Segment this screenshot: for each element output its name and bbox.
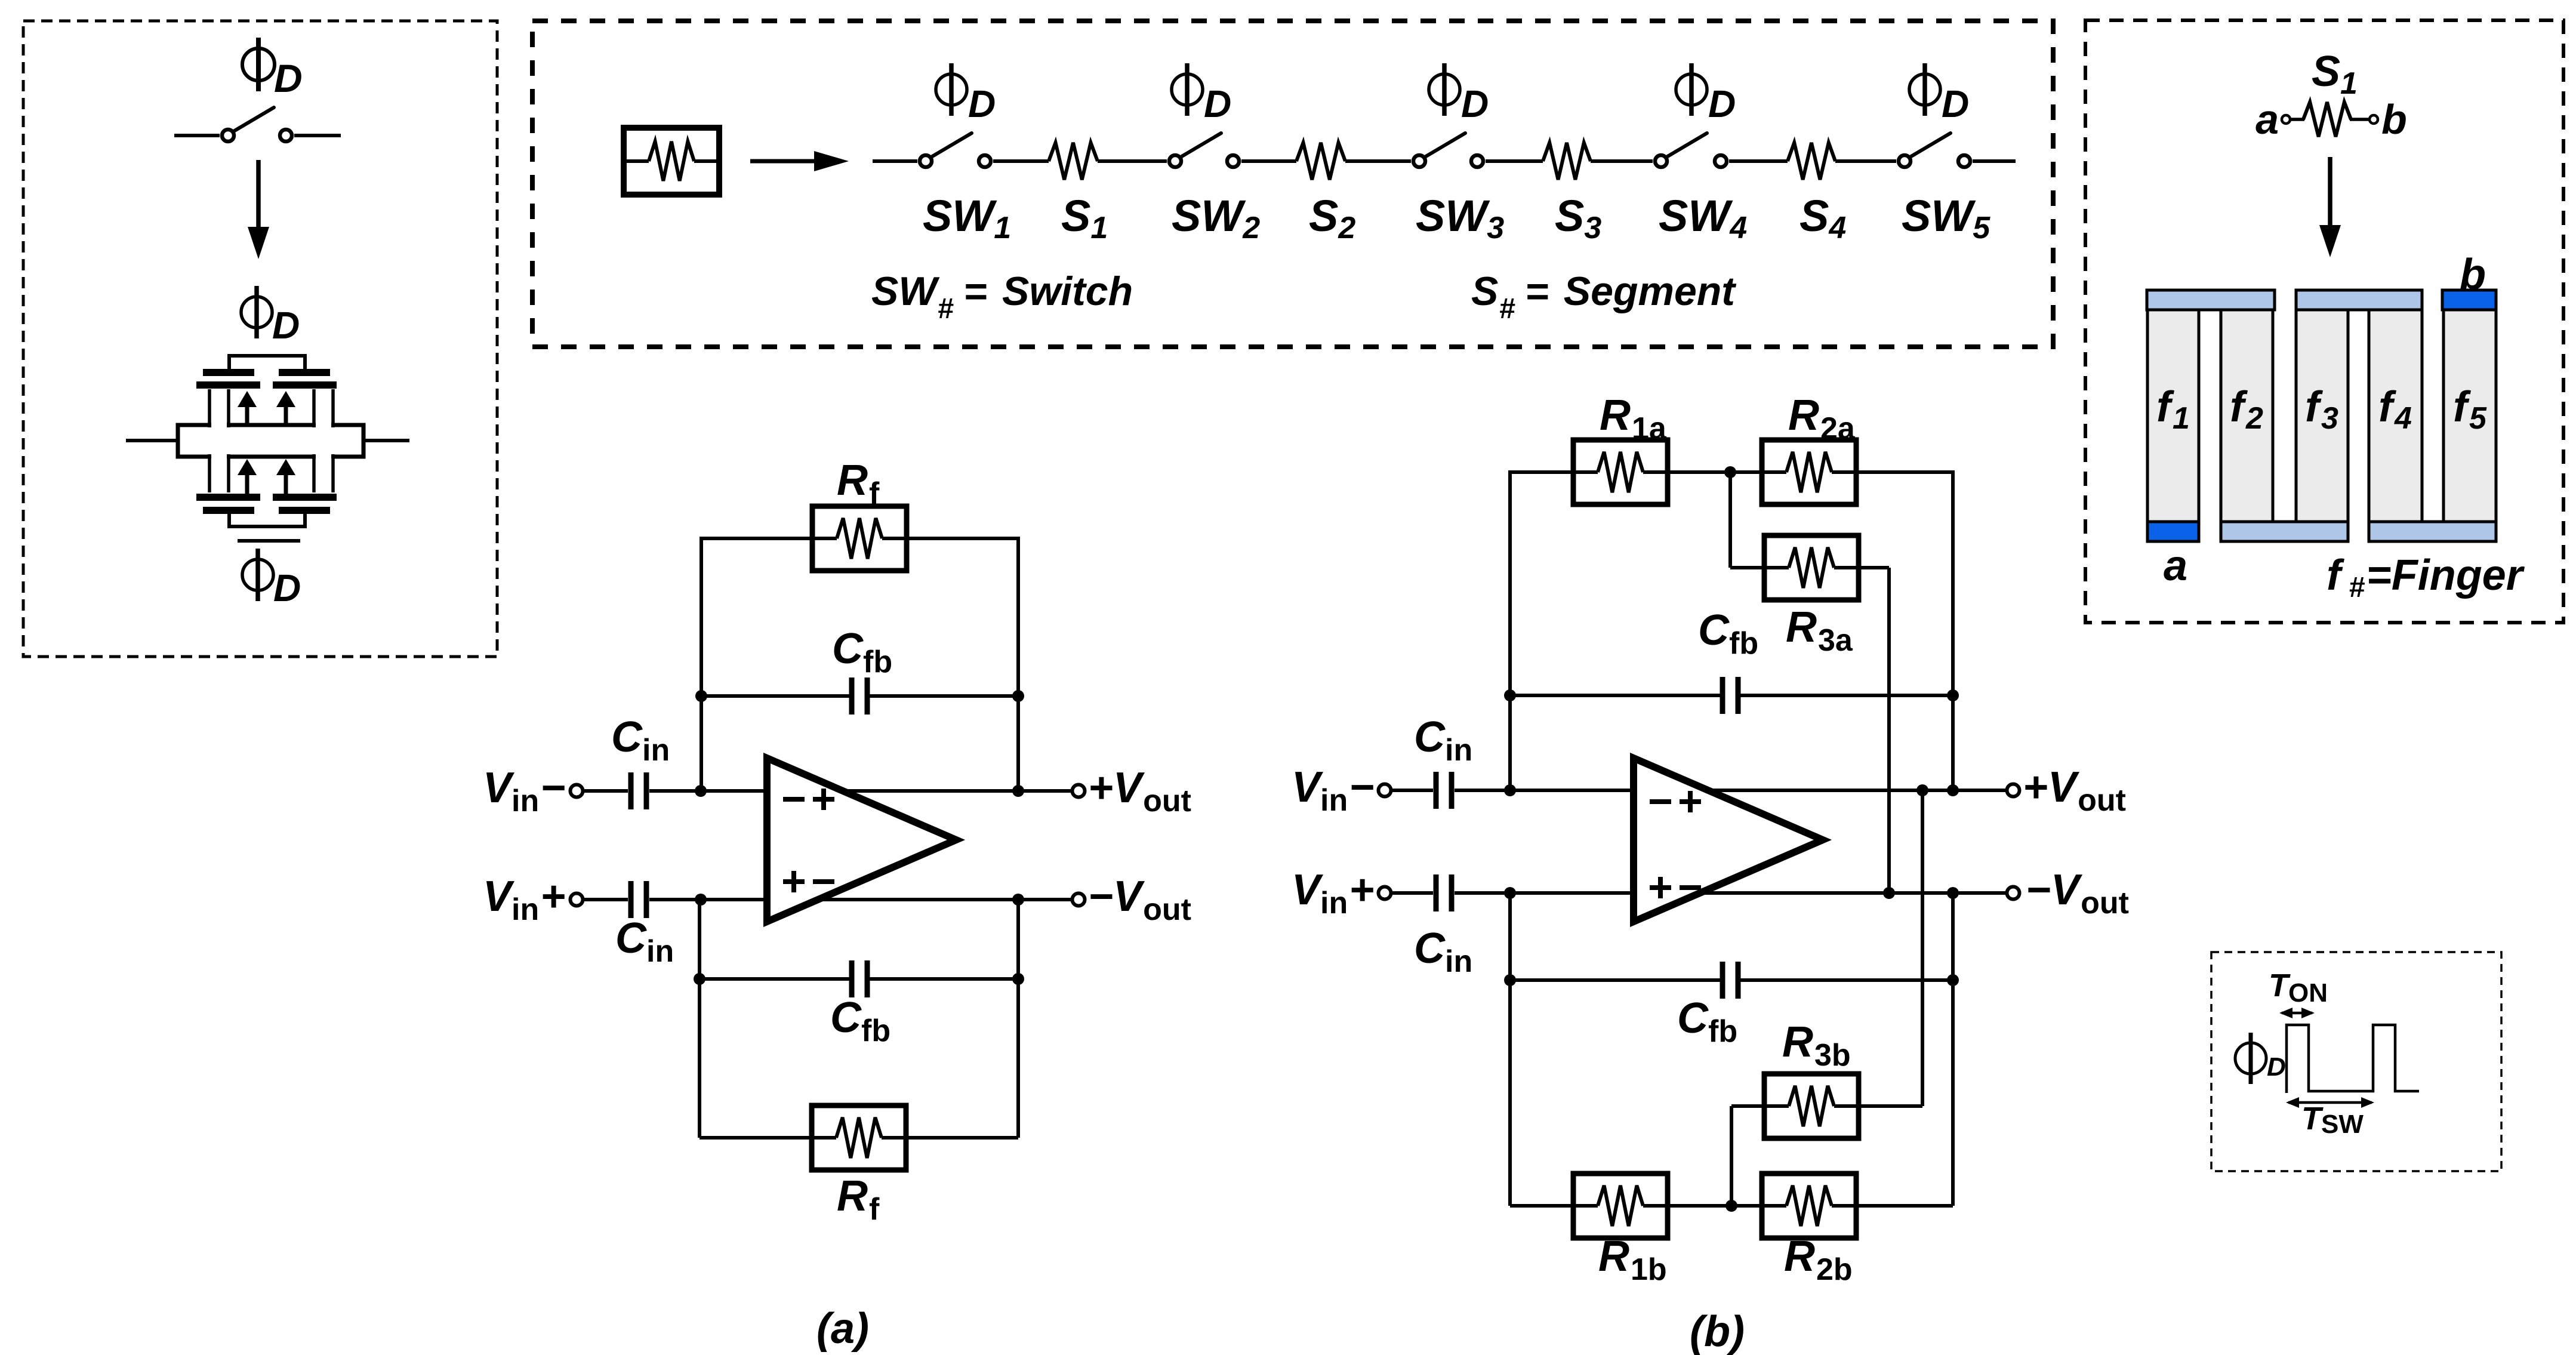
resistor segment S3: [1543, 143, 1591, 180]
transmission gate upper bulk arrows: [238, 391, 257, 407]
wire: -Vout right rail (a): [1016, 900, 1020, 979]
svg-text:D: D: [1708, 82, 1736, 125]
switch SW3: [1413, 155, 1425, 167]
label phi_D (SW2 clock): [1172, 74, 1203, 105]
node: Cfb-bottom left junction (a): [694, 973, 705, 985]
svg-text:S#=Segment: S#=Segment: [1471, 269, 1736, 325]
svg-text:a: a: [2255, 96, 2279, 143]
dimension arrow T_ON: [2282, 1012, 2312, 1015]
node: -Vout junction with R3a rail (b): [1883, 887, 1895, 899]
capacitor Cfb (top feedback, b): [1720, 677, 1725, 714]
svg-text:Vin+: Vin+: [483, 873, 565, 927]
svg-text:Cin: Cin: [1414, 713, 1472, 768]
wire: Cin to op-amp inverting input (a): [649, 789, 767, 793]
svg-text:Vin−: Vin−: [483, 764, 565, 818]
resistor R3b: [1764, 1074, 1859, 1138]
switch SW5: [1899, 155, 1911, 167]
svg-text:−Vout: −Vout: [1088, 873, 1191, 927]
wire: -Vout line (b): [1695, 891, 2007, 895]
transmission gate upper gate plates: [203, 369, 254, 376]
dashed box: ideal switch to transmission-gate equivalence: [23, 21, 497, 657]
svg-text:Cin: Cin: [611, 713, 670, 768]
wire: Vin- to Cin (a): [583, 789, 628, 793]
node: Cfb-top left junction (b): [1504, 689, 1516, 701]
transmission gate upper source/drain contacts: [211, 390, 227, 428]
dashed box: segment finger layout: [2085, 20, 2563, 623]
wire: Rf-top feedback line (a): [701, 537, 1018, 540]
wire: S1 to SW2: [1098, 159, 1167, 163]
wire: +Vout line (a): [843, 789, 1072, 793]
svg-text:R1b: R1b: [1598, 1233, 1667, 1287]
resistor segment S2: [1296, 143, 1345, 180]
terminal +Vout (b): [2007, 784, 2020, 797]
svg-text:Vin+: Vin+: [1292, 866, 1374, 920]
svg-text:R1a: R1a: [1600, 392, 1667, 446]
svg-text:D: D: [1204, 82, 1231, 125]
svg-text:Cfb: Cfb: [1677, 994, 1737, 1049]
svg-text:SW2: SW2: [1172, 191, 1260, 245]
finger f1 body: [2147, 310, 2199, 522]
svg-text:D: D: [274, 56, 303, 100]
svg-text:a: a: [2164, 542, 2187, 590]
label phi_D (gate of NMOS pair): [241, 297, 272, 328]
wire: Cin to op-amp non-inverting input (b): [1455, 891, 1634, 895]
switch SW1: [920, 155, 932, 167]
resistor R2b: [1762, 1174, 1856, 1238]
svg-text:SW#=Switch: SW#=Switch: [871, 269, 1133, 325]
op-amp U2 pin: non-inverting input marker (b): [1650, 885, 1671, 890]
capacitor Cin (inverting input, a): [628, 772, 634, 809]
capacitor Cfb (bottom feedback, b): [1720, 962, 1725, 999]
wire: S3 to SW4: [1591, 159, 1653, 163]
wire: non-inverting node left rail (b): [1508, 893, 1512, 980]
wire: transmission gate left terminal: [126, 439, 178, 442]
terminal +Vout (a): [1073, 785, 1085, 797]
finger f5 body: [2443, 310, 2496, 522]
label phi_D (waveform name): [2235, 1043, 2266, 1074]
resistor (boxed symbol, unsegmented): [624, 128, 719, 195]
svg-text:R3b: R3b: [1782, 1018, 1851, 1073]
svg-text:SW4: SW4: [1659, 191, 1747, 245]
transmission gate lower bulk arrows: [238, 459, 257, 475]
svg-text:SW5: SW5: [1902, 191, 1990, 245]
wire: -Vout down to R2b (right rail, b): [1951, 893, 1955, 1206]
wire: upper gate connector: [229, 356, 305, 369]
wire: lead into SW1: [873, 159, 917, 163]
svg-text:S3: S3: [1555, 191, 1601, 245]
wire: S4 to SW5: [1835, 159, 1896, 163]
svg-text:b: b: [2460, 251, 2486, 298]
op-amp U1 pin: inverted output marker (a): [813, 879, 834, 884]
wire: R1b-R2b bottom feedback line (b): [1510, 1204, 1953, 1208]
wire: R2a to +Vout right rail (b): [1951, 470, 1955, 790]
label phi_D (SW3 clock): [1429, 74, 1460, 105]
wire: lead out of SW5: [1973, 159, 2016, 163]
svg-text:Vin−: Vin−: [1292, 763, 1374, 818]
wire: lower gate connector: [229, 514, 305, 526]
svg-text:Cfb: Cfb: [832, 625, 892, 679]
svg-text:Rf: Rf: [837, 1172, 880, 1227]
capacitor Cfb (top feedback, a): [849, 677, 855, 715]
svg-text:R2a: R2a: [1788, 392, 1856, 446]
svg-text:b: b: [2381, 96, 2407, 143]
wire: Cfb-top line (b): [1510, 694, 1723, 697]
wire: junction down to R3a (b): [1728, 472, 1732, 568]
wire: R3a to -Vout crossover (b): [1859, 566, 1889, 569]
terminal Vin- (b): [1379, 784, 1391, 797]
svg-text:f#=Finger: f#=Finger: [2327, 552, 2525, 603]
wire: right rail to Rf-bottom (a): [1016, 979, 1020, 1138]
node: -Vout junction (a): [1012, 894, 1024, 906]
svg-text:Cin: Cin: [1414, 925, 1472, 979]
node: +Vout junction with R3b rail (b): [1916, 784, 1928, 796]
transmission gate lower channel plates: [196, 494, 260, 501]
wire: +Vout line (b): [1708, 789, 2007, 792]
resistor segment S4: [1788, 143, 1835, 180]
switch SW ideal (open SPST): [174, 134, 220, 137]
svg-text:+Vout: +Vout: [2023, 763, 2126, 818]
terminal Vin+ (a): [571, 894, 583, 906]
resistor Rf (top feedback, a): [812, 506, 907, 571]
svg-text:S1: S1: [2312, 48, 2358, 101]
capacitor Cin (non-inverting input, a): [628, 881, 634, 918]
svg-text:R2b: R2b: [1784, 1233, 1853, 1287]
node: Cfb-top right junction (b): [1947, 689, 1959, 701]
wire: Cfb-top line (a): [701, 694, 852, 698]
wire: +Vout right rail (a): [1016, 537, 1020, 791]
node: +Vout junction (a): [1012, 785, 1024, 797]
svg-text:D: D: [272, 304, 300, 347]
label phi_D (SW1 clock): [936, 74, 967, 105]
wire: SW3 to S3: [1486, 159, 1543, 163]
resistor R2a: [1762, 440, 1856, 504]
waveform phi_D (clock pulses): [2287, 1025, 2419, 1093]
resistor R1b: [1573, 1174, 1668, 1238]
node: non-inverting input junction (b): [1504, 887, 1516, 899]
svg-text:SW3: SW3: [1416, 191, 1504, 245]
svg-text:SW1: SW1: [923, 191, 1011, 245]
resistor R3a: [1764, 535, 1859, 600]
svg-text:D: D: [2267, 1052, 2286, 1082]
terminal Vin- (a): [571, 785, 583, 797]
finger f3 body: [2296, 310, 2348, 522]
svg-text:Cfb: Cfb: [1698, 606, 1758, 661]
op-amp U1 pin: non-inverted output marker (a): [813, 797, 834, 802]
label phi_D (SW5 clock): [1909, 74, 1940, 105]
terminal -Vout (b): [2007, 887, 2020, 900]
top connector f1-f2 (metal link): [2147, 290, 2275, 310]
label phi_D (SW4 clock): [1676, 74, 1707, 105]
svg-text:Cin: Cin: [615, 914, 674, 969]
wire: S2 to SW3: [1345, 159, 1411, 163]
svg-text:D: D: [1461, 82, 1489, 125]
resistor R1a: [1573, 440, 1668, 504]
transmission gate lower gate plates: [203, 507, 254, 514]
wire: inverting-node left rail (a): [700, 537, 703, 791]
wire: R1a-R2a top feedback line (b): [1510, 470, 1953, 474]
svg-text:TSW: TSW: [2301, 1101, 2364, 1139]
node: non-inverting input junction (a): [695, 894, 707, 906]
finger f2 body: [2221, 310, 2273, 522]
dimension arrow T_SW: [2288, 1101, 2372, 1104]
wire: Vin- to Cin (b): [1391, 789, 1433, 792]
node: Cfb-bottom right junction (b): [1947, 974, 1959, 986]
switch SW2: [1169, 155, 1181, 167]
wire: SW2 to S2: [1241, 159, 1296, 163]
svg-text:(b): (b): [1690, 1308, 1745, 1355]
wire: left rail to Rf-bottom (a): [698, 979, 701, 1138]
dashed box: clock timing diagram: [2211, 952, 2501, 1171]
node: R1b-R2b junction (b): [1725, 1200, 1737, 1212]
wire: SW4 to S4: [1729, 159, 1788, 163]
op-amp U2 (fully differential, b): [1634, 758, 1823, 922]
svg-text:S2: S2: [1309, 191, 1355, 245]
svg-text:(a): (a): [816, 1305, 869, 1353]
node: R1a-R2a junction (b): [1724, 466, 1736, 478]
transmission gate lower source/drain contacts: [211, 454, 227, 492]
op-amp U2 pin: inverted output marker (b): [1680, 885, 1701, 890]
svg-text:D: D: [1942, 82, 1969, 125]
switch SW4: [1655, 155, 1667, 167]
svg-text:−Vout: −Vout: [2026, 866, 2129, 920]
transmission gate Q1 body (channel bar): [178, 425, 363, 457]
svg-text:TON: TON: [2269, 968, 2328, 1008]
resistor segment S1: [1049, 143, 1098, 180]
svg-text:D: D: [273, 566, 301, 609]
svg-text:R3a: R3a: [1786, 603, 1853, 658]
node: Cfb-bottom right junction (a): [1012, 973, 1024, 985]
svg-text:S4: S4: [1799, 191, 1846, 245]
capacitor Cin (inverting input, b): [1434, 772, 1439, 809]
node: inverting input junction (a): [695, 785, 707, 797]
wire: +Vout down to R3b (crossover, b): [1921, 790, 1924, 1106]
wire: Cfb-bottom line (a): [700, 977, 852, 981]
node: Cfb-top left junction (a): [695, 690, 707, 702]
arrow (expands S1 into fingers): [2328, 157, 2332, 230]
terminal Vin+ (b): [1379, 887, 1391, 900]
dashed box: segmented resistor implementation: [532, 21, 2053, 347]
label phi_D (clock, above ideal switch): [242, 48, 275, 81]
op-amp U2 pin: inverting input marker (b): [1650, 799, 1671, 804]
wire: Vin+ to Cin (b): [1391, 891, 1433, 895]
wire: inverting-node left rail (b): [1508, 470, 1512, 790]
terminal -Vout (a): [1073, 894, 1085, 906]
op-amp U1 (fully differential, a): [767, 758, 956, 922]
wire: Cin to op-amp inverting input (b): [1455, 789, 1634, 792]
arrow (maps ideal switch to transmission gate): [256, 160, 261, 232]
op-amp U1 pin: inverting input marker (a): [783, 797, 805, 802]
resistor S1 (terminal a to b): [2282, 115, 2290, 124]
arrow (expands resistor into segments): [750, 159, 819, 164]
finger f4 body: [2369, 310, 2422, 522]
capacitor Cfb (bottom feedback, a): [849, 960, 855, 997]
top connector f3-f4 (metal link): [2296, 290, 2422, 310]
wire: SW1 to S1: [993, 159, 1049, 163]
svg-text:D: D: [968, 82, 996, 125]
terminal b pad (on f5 top): [2442, 290, 2496, 310]
wire: non-inverting node left rail (a): [698, 900, 701, 979]
bottom connector f4-f5 (metal link): [2369, 522, 2496, 541]
wire: transmission gate right terminal: [363, 439, 409, 442]
op-amp U1 pin: non-inverting input marker (a): [783, 879, 805, 884]
svg-text:Rf: Rf: [837, 457, 880, 511]
op-amp U2 pin: non-inverted output marker (b): [1680, 799, 1701, 804]
svg-text:Cfb: Cfb: [830, 994, 890, 1048]
node: Cfb-top right junction (a): [1012, 690, 1024, 702]
node: +Vout junction with R2a rail (b): [1947, 784, 1959, 796]
wire: Cin to op-amp non-inverting input (a): [649, 898, 767, 901]
wire: Vin+ to Cin (a): [583, 898, 628, 901]
capacitor Cin (non-inverting input, b): [1434, 874, 1439, 911]
svg-text:+Vout: +Vout: [1088, 764, 1191, 818]
svg-text:S1: S1: [1061, 191, 1108, 245]
wire: Rf-bottom feedback line (a): [700, 1136, 1018, 1140]
wire: R3b to R1b-R2b junction (b): [1731, 1104, 1764, 1108]
terminal a pad (on f1 bottom): [2147, 522, 2199, 541]
label phi_D-bar (gate of PMOS pair, with overline): [238, 539, 300, 543]
wire: left rail to R1b (b): [1508, 980, 1512, 1206]
bottom connector f2-f3 (metal link): [2221, 522, 2348, 541]
node: -Vout junction with R2b rail (b): [1947, 887, 1959, 899]
transmission gate upper channel plates: [196, 381, 260, 389]
node: Cfb-bottom left junction (b): [1504, 974, 1516, 986]
wire: -Vout line (a): [818, 898, 1072, 901]
node: inverting input junction (b): [1504, 784, 1516, 796]
wire: Cfb-bottom line (b): [1510, 978, 1723, 982]
resistor Rf (bottom feedback, a): [812, 1105, 906, 1170]
